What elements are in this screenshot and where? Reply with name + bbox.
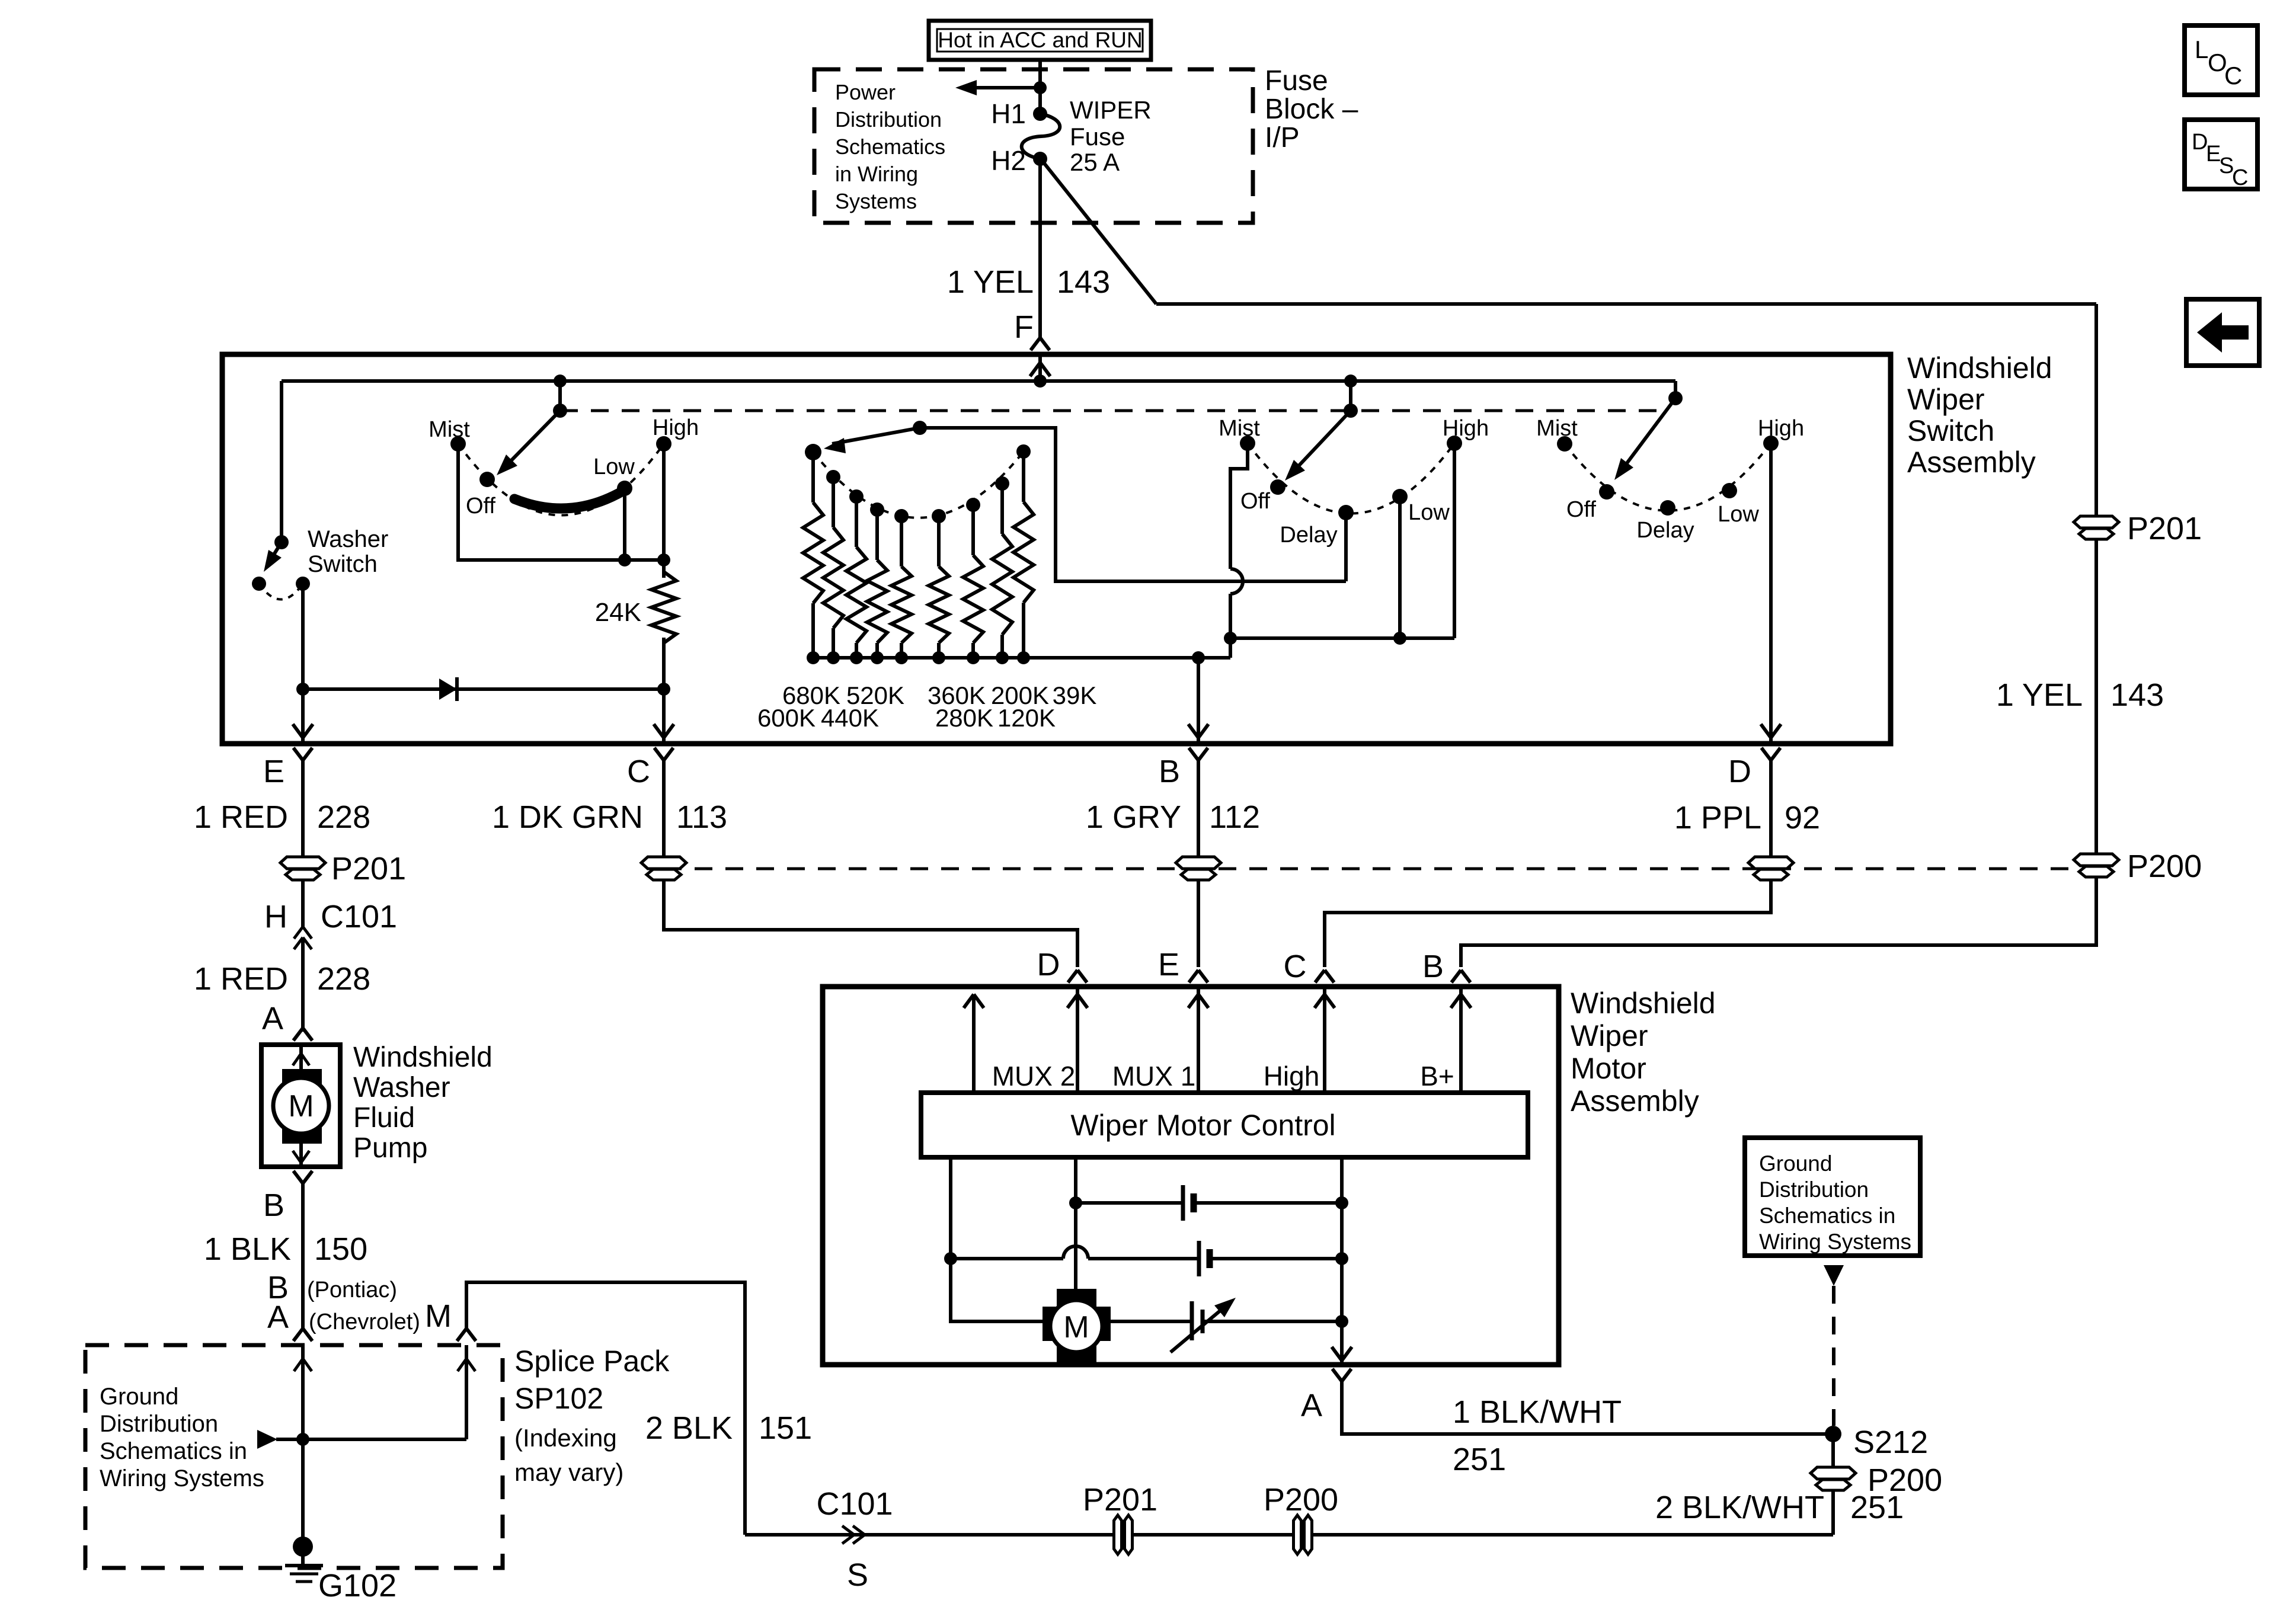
svg-text:Assembly: Assembly — [1907, 446, 2036, 479]
svg-text:228: 228 — [317, 961, 370, 997]
wire: pump B drop — [301, 1183, 305, 1331]
capacitor C1 (upper) — [1076, 1185, 1342, 1221]
svg-text:Wiring Systems: Wiring Systems — [1759, 1230, 1911, 1254]
svg-text:Distribution: Distribution — [835, 107, 942, 132]
dashed arc washer — [259, 584, 303, 600]
node: branch junction — [1034, 81, 1047, 94]
ground distribution dashed box — [85, 1345, 503, 1568]
svg-text:Systems: Systems — [835, 189, 917, 213]
motor M2 symbol — [1043, 1289, 1111, 1362]
terminal M (splice pack) — [457, 1329, 476, 1341]
connector P201 (bus) — [1083, 1482, 1157, 1554]
wire: ground bus — [745, 1533, 1833, 1537]
washer switch lever arrow — [264, 542, 282, 572]
svg-text:A: A — [267, 1299, 289, 1335]
resistor 24K — [595, 572, 676, 643]
wire: S2 Mist step-down — [1230, 443, 1248, 638]
wire: S212 to P200 — [1831, 1434, 1835, 1468]
label: Windshield Wiper Motor Assembly — [1571, 987, 1716, 1118]
svg-text:P201: P201 — [2127, 511, 2202, 546]
svg-text:Assembly: Assembly — [1571, 1084, 1699, 1118]
wire: washer riser — [280, 381, 283, 542]
wire: B to motor E — [1197, 880, 1200, 967]
label: 2 BLK 151 — [645, 1410, 812, 1446]
svg-text:Hot in ACC and RUN: Hot in ACC and RUN — [938, 28, 1142, 52]
contact washer right — [296, 577, 310, 591]
terminal E (switch) — [263, 748, 312, 789]
svg-text:MUX 2: MUX 2 — [992, 1061, 1076, 1092]
dashed arc S3 — [1565, 443, 1771, 511]
label: Washer Switch — [308, 526, 388, 577]
node: battery1 left — [1069, 1196, 1082, 1209]
label: 1 RED 228 — [194, 799, 370, 835]
contact S2 Low — [1392, 489, 1450, 525]
svg-text:Wiper: Wiper — [1571, 1019, 1648, 1052]
label: 1 YEL 143 (right) — [1996, 677, 2164, 713]
svg-text:Mist: Mist — [428, 417, 470, 442]
svg-text:1 BLK/WHT: 1 BLK/WHT — [1453, 1394, 1622, 1430]
wire: WMC left drop — [951, 1157, 1043, 1321]
terminal A (motor) — [1301, 1369, 1351, 1423]
svg-text:Windshield: Windshield — [1907, 351, 2052, 385]
svg-text:Motor: Motor — [1571, 1052, 1646, 1085]
svg-text:B: B — [263, 1188, 284, 1223]
terminal D (switch) — [1728, 748, 1780, 789]
svg-text:1 YEL: 1 YEL — [1996, 677, 2083, 713]
svg-text:Mist: Mist — [1536, 416, 1578, 441]
svg-text:600K: 600K — [757, 704, 816, 732]
wire: C101 to pump A — [301, 937, 305, 1032]
connector P201 (right) — [2074, 511, 2202, 546]
switch S2 lever arrow — [1285, 411, 1351, 481]
wire: ground crossover — [257, 1430, 466, 1449]
svg-text:(Pontiac): (Pontiac) — [307, 1278, 397, 1302]
svg-text:1 RED: 1 RED — [194, 799, 288, 835]
svg-text:A: A — [1301, 1388, 1322, 1423]
diode D1 — [303, 677, 664, 701]
connector P201 (C column) — [641, 857, 686, 880]
ground G102 — [285, 1537, 396, 1603]
pin H1 — [991, 98, 1047, 129]
wire: inner top bus — [282, 379, 1675, 383]
windshield wiper switch assembly box — [222, 354, 1891, 744]
wire: washer to diode rail — [301, 584, 305, 689]
node: switch2 pivot — [1344, 404, 1358, 418]
svg-text:P200: P200 — [1264, 1482, 1338, 1518]
connector P200 (D column) — [1748, 857, 1793, 880]
svg-text:P201: P201 — [331, 851, 406, 886]
svg-text:1 PPL: 1 PPL — [1674, 800, 1761, 836]
node: ground junction — [296, 1433, 309, 1446]
terminal E (motor) — [1158, 947, 1208, 982]
svg-text:280K: 280K — [935, 704, 993, 732]
note: Power Distribution Schematics in Wiring Systems — [835, 80, 945, 213]
label: Windshield Wiper Switch Assembly — [1907, 351, 2052, 479]
svg-text:113: 113 — [676, 799, 727, 835]
resistor 120K (ladder 8) — [992, 476, 1012, 664]
svg-text:B: B — [1422, 949, 1444, 984]
svg-text:Fuse: Fuse — [1265, 65, 1328, 97]
svg-text:C: C — [627, 754, 650, 789]
note: Ground Distribution Schematics in Wiring Systems (right) — [1759, 1151, 1911, 1254]
wire: ladder bus to mux — [1229, 638, 1232, 658]
svg-text:High: High — [1758, 416, 1804, 441]
node: diode rail right — [657, 683, 670, 696]
contact S1 Off — [466, 472, 495, 518]
dashed arc S2 — [1248, 443, 1454, 514]
svg-text:P200: P200 — [2127, 849, 2202, 884]
svg-text:Low: Low — [593, 454, 635, 479]
label: ladder values row2 — [757, 704, 1056, 732]
terminal D (motor) — [1037, 947, 1088, 982]
svg-text:M: M — [1063, 1310, 1089, 1345]
wire: C to motor D — [664, 880, 1077, 967]
svg-text:151: 151 — [759, 1410, 812, 1446]
contact S3 Low — [1718, 483, 1759, 527]
svg-text:M: M — [288, 1089, 314, 1124]
terminal C (switch) — [627, 748, 673, 789]
node: S2 mux junction — [1224, 632, 1237, 645]
svg-text:2 BLK/WHT: 2 BLK/WHT — [1655, 1490, 1824, 1525]
label: ladder values row1 — [782, 681, 1096, 709]
wire from Hot box to H1 — [1038, 60, 1042, 114]
svg-text:H2: H2 — [991, 145, 1026, 176]
label: 1 YEL 143 (top) — [947, 264, 1110, 300]
svg-text:25 A: 25 A — [1070, 148, 1120, 176]
label: 1 PPL 92 — [1674, 800, 1820, 836]
wire: S2 mux rail — [1230, 636, 1454, 640]
svg-text:Schematics in: Schematics in — [1759, 1204, 1895, 1228]
label: MUX 1 — [1112, 1061, 1196, 1092]
terminal A (pump) — [293, 1028, 312, 1041]
wire: P201 to C101 — [301, 880, 305, 927]
wire: M ground riser — [458, 1345, 475, 1439]
svg-text:C101: C101 — [816, 1486, 893, 1522]
node: battery2 left — [944, 1252, 957, 1265]
wire: S1 High column — [662, 444, 666, 578]
wire: M jumper — [466, 1282, 745, 1535]
label: A (Chevrolet) M — [267, 1298, 452, 1335]
contact washer left — [252, 577, 266, 591]
svg-text:Off: Off — [1566, 497, 1596, 522]
pin H2 — [991, 145, 1047, 176]
contact S2 Off — [1240, 479, 1285, 514]
node: washer pivot — [274, 535, 289, 549]
contact S3 Delay — [1636, 500, 1694, 543]
label: Splice Pack SP102 — [514, 1345, 670, 1486]
svg-text:Wiper Motor Control: Wiper Motor Control — [1070, 1109, 1335, 1142]
svg-text:Power: Power — [835, 80, 896, 104]
svg-text:Off: Off — [1240, 489, 1270, 514]
connector P200 (B column) — [1176, 857, 1221, 880]
svg-text:Block –: Block – — [1265, 94, 1358, 125]
label box: Hot in ACC and RUN — [929, 21, 1151, 60]
label: 1 GRY 112 — [1086, 799, 1260, 835]
wire: ground drop — [294, 1345, 312, 1547]
contact S3 Off — [1566, 484, 1614, 522]
svg-text:C: C — [2232, 165, 2248, 190]
svg-text:Wiring Systems: Wiring Systems — [100, 1465, 264, 1491]
svg-text:MUX 1: MUX 1 — [1112, 1061, 1196, 1092]
contact S1 Mist — [428, 417, 470, 452]
icon: DESC box — [2185, 120, 2257, 190]
contact S3 High — [1758, 416, 1804, 451]
label: High (motor) — [1264, 1061, 1320, 1092]
svg-text:Schematics: Schematics — [835, 135, 945, 159]
node: diode rail left — [296, 683, 309, 696]
svg-text:Delay: Delay — [1280, 523, 1337, 548]
resistor 280K (ladder 6) — [929, 509, 949, 664]
svg-text:I/P: I/P — [1265, 122, 1300, 153]
svg-text:Switch: Switch — [308, 551, 378, 577]
svg-text:Low: Low — [1408, 500, 1450, 525]
wire: WMC right drop — [1332, 1157, 1352, 1365]
resistor 600K (ladder 2) — [823, 470, 843, 664]
note: Ground Distribution Schematics in Wiring Systems (left) — [100, 1384, 264, 1491]
wire: H2 to F terminal — [1038, 159, 1042, 339]
wire: pump top lead — [293, 1045, 309, 1078]
wire: S2 Low drop — [1398, 497, 1402, 638]
node: switch2 pivot top — [1344, 375, 1357, 411]
svg-text:Washer: Washer — [353, 1072, 450, 1103]
wire: C drop — [662, 760, 666, 857]
svg-text:G102: G102 — [318, 1568, 396, 1603]
svg-text:228: 228 — [317, 799, 370, 835]
svg-text:Windshield: Windshield — [353, 1042, 493, 1073]
wire: power distribution branch arrow — [955, 80, 1040, 95]
resistor 680K (ladder 1) — [803, 444, 823, 664]
wire: WMC arrow B — [1451, 987, 1471, 1093]
wire: WMC arrow 0 — [964, 994, 984, 1093]
wire: pump bottom lead — [293, 1133, 309, 1167]
svg-text:F: F — [1014, 309, 1034, 345]
svg-text:B+: B+ — [1420, 1061, 1454, 1092]
wire: S1 Low contact drop — [623, 488, 626, 560]
resistor 39K (ladder 9) — [1013, 444, 1034, 664]
resistor 520K (ladder 3) — [846, 489, 866, 664]
svg-text:150: 150 — [314, 1231, 367, 1267]
wire: WMC mux1 drop — [1074, 1157, 1077, 1291]
off-page triangle — [1824, 1265, 1844, 1286]
label: 1 BLK 150 — [204, 1231, 367, 1267]
svg-text:Low: Low — [1718, 502, 1759, 527]
svg-text:1 DK GRN: 1 DK GRN — [492, 799, 643, 835]
svg-text:143: 143 — [2110, 677, 2164, 713]
label: Fuse Block - I/P — [1265, 65, 1358, 153]
wire: ladder bottom bus — [813, 656, 1230, 660]
svg-text:E: E — [263, 754, 284, 789]
wire: 24K to diode rail — [662, 638, 666, 689]
svg-text:E: E — [1158, 947, 1179, 982]
wire: 1 YEL 143 right drop — [2094, 304, 2098, 855]
node: C2 right — [1335, 1252, 1348, 1265]
wire: S2 delay feed riser — [1344, 513, 1348, 581]
svg-text:S: S — [847, 1557, 868, 1593]
node: S2 low junction — [1393, 632, 1406, 645]
label: A (pump) — [262, 1001, 283, 1036]
svg-text:Off: Off — [466, 494, 495, 518]
inline connector C101 (left) — [264, 899, 397, 949]
svg-text:Ground: Ground — [1759, 1151, 1832, 1176]
pump M1 motor symbol — [273, 1069, 329, 1144]
wire: S1 Mist to low rail — [458, 444, 664, 560]
wire: P200 to ground bus — [1831, 1490, 1835, 1535]
wire: H2 diagonal to right bus — [1043, 161, 2096, 304]
dashed wire to S212 — [1832, 1286, 1835, 1426]
svg-text:H1: H1 — [991, 98, 1026, 129]
svg-text:SP102: SP102 — [514, 1382, 603, 1415]
label: Windshield Washer Fluid Pump — [353, 1042, 493, 1164]
wire: ladder pivot to delay feed — [920, 428, 1346, 581]
wire: B drop — [1197, 760, 1200, 857]
svg-text:Windshield: Windshield — [1571, 987, 1716, 1020]
switch S3 lever arrow — [1614, 398, 1675, 480]
node: switch3 pivot — [1668, 391, 1683, 405]
terminal A (splice pack) — [293, 1329, 312, 1341]
label: MUX 2 — [992, 1061, 1076, 1092]
label: 2 BLK/WHT 251 — [1655, 1490, 1904, 1525]
fuse F1 WIPER 25A — [1022, 96, 1152, 176]
svg-text:C: C — [1284, 949, 1307, 984]
label: B (Pontiac) — [267, 1270, 397, 1305]
svg-text:2 BLK: 2 BLK — [645, 1410, 733, 1446]
contact S2 Mist — [1219, 416, 1260, 451]
contact S1 High — [653, 415, 699, 452]
node: B tap — [1192, 651, 1205, 664]
ground distribution box (right) — [1745, 1138, 1920, 1256]
svg-text:251: 251 — [1453, 1442, 1506, 1477]
wire: D drop — [1769, 760, 1773, 857]
svg-text:251: 251 — [1850, 1490, 1904, 1525]
label: B+ — [1420, 1061, 1454, 1092]
svg-text:in Wiring: in Wiring — [835, 162, 918, 186]
contact S2 High — [1443, 416, 1489, 451]
wire: F entry stub — [1030, 354, 1050, 381]
svg-text:Fuse: Fuse — [1070, 123, 1125, 151]
svg-text:(Indexing: (Indexing — [514, 1424, 617, 1452]
splice S212 — [1825, 1425, 1928, 1460]
resistor 200K (ladder 7) — [963, 498, 983, 664]
wire: S2 High drop — [1453, 443, 1456, 638]
contact S3 Mist — [1536, 416, 1578, 452]
fuse block dashed box — [814, 69, 1253, 223]
dashed arc ladder — [813, 452, 1024, 518]
icon: back arrow box — [2186, 299, 2259, 366]
wire: E drop — [301, 760, 305, 857]
svg-text:Pump: Pump — [353, 1132, 427, 1164]
svg-text:D: D — [1037, 947, 1060, 982]
wire: WMC arrow E — [1188, 987, 1208, 1093]
wire: WMC arrow C — [1315, 987, 1335, 1093]
svg-text:120K: 120K — [997, 704, 1056, 732]
svg-text:440K: 440K — [821, 704, 879, 732]
wire: switch3 pivot drop — [1674, 381, 1677, 398]
windshield washer fluid pump box — [261, 1045, 340, 1167]
windshield wiper motor assembly box — [823, 987, 1559, 1365]
svg-text:may vary): may vary) — [514, 1458, 623, 1486]
svg-text:(Chevrolet): (Chevrolet) — [309, 1310, 420, 1334]
connector P200 (S212) — [1811, 1462, 1942, 1498]
svg-text:1 RED: 1 RED — [194, 961, 288, 997]
svg-text:Distribution: Distribution — [100, 1411, 218, 1437]
node: motor rail right — [1335, 1315, 1348, 1328]
svg-text:Ground: Ground — [100, 1384, 178, 1410]
svg-text:H: H — [264, 899, 287, 934]
node: switch1 pivot top — [554, 375, 567, 411]
inline connector C101 (bus) — [816, 1486, 893, 1593]
svg-text:Switch: Switch — [1907, 414, 1994, 447]
switch S1 lever arrow — [497, 411, 560, 475]
svg-text:C: C — [2224, 62, 2242, 89]
dashed control line — [560, 409, 1662, 412]
ladder selector arrow — [824, 428, 920, 453]
node: S1 low-rail junctions — [618, 553, 670, 566]
terminal B (pump) — [263, 1171, 312, 1223]
terminal F — [1014, 309, 1050, 350]
connector P201 (E column) — [280, 851, 406, 886]
svg-text:1 BLK: 1 BLK — [204, 1231, 291, 1267]
wire: right bus to motor B — [1461, 876, 2096, 967]
wiper motor control box — [921, 1093, 1528, 1157]
dashed connector row — [664, 868, 2074, 870]
svg-text:Washer: Washer — [308, 526, 388, 552]
variable resistor (wiper speed) — [1111, 1298, 1342, 1352]
svg-text:A: A — [262, 1001, 283, 1036]
svg-text:1 YEL: 1 YEL — [947, 264, 1034, 300]
terminal B (switch) — [1159, 748, 1208, 789]
svg-text:143: 143 — [1057, 264, 1110, 300]
label: 1 DK GRN 113 — [492, 799, 727, 835]
svg-text:Distribution: Distribution — [1759, 1177, 1869, 1202]
svg-text:S212: S212 — [1853, 1425, 1928, 1460]
svg-text:Splice Pack: Splice Pack — [514, 1345, 670, 1378]
svg-text:92: 92 — [1785, 800, 1820, 836]
svg-text:Fluid: Fluid — [353, 1102, 415, 1134]
svg-text:39K: 39K — [1053, 681, 1097, 709]
svg-text:B: B — [1159, 754, 1180, 789]
svg-text:C101: C101 — [321, 899, 397, 934]
svg-text:D: D — [1728, 754, 1751, 789]
svg-text:Schematics in: Schematics in — [100, 1438, 247, 1464]
svg-text:High: High — [653, 415, 699, 440]
label: 1 BLK/WHT 251 — [1453, 1394, 1622, 1477]
wire: E exit — [293, 689, 313, 741]
wire: B exit — [1188, 658, 1208, 741]
resistor 440K (ladder 4) — [867, 502, 887, 664]
svg-text:Wiper: Wiper — [1907, 383, 1985, 416]
svg-text:High: High — [1443, 416, 1489, 441]
node: C1 right — [1335, 1196, 1348, 1209]
contact S2 Delay — [1280, 505, 1354, 548]
svg-text:L: L — [2195, 36, 2208, 63]
node: switch1 pivot — [553, 404, 567, 418]
svg-text:Mist: Mist — [1219, 416, 1260, 441]
connector P200 (bus) — [1264, 1482, 1338, 1554]
capacitor C2 (lower) — [951, 1241, 1342, 1276]
terminal C (motor) — [1284, 949, 1335, 984]
svg-text:24K: 24K — [595, 598, 641, 627]
svg-text:WIPER: WIPER — [1070, 96, 1152, 124]
connector P200 (right) — [2074, 849, 2202, 884]
svg-text:High: High — [1264, 1061, 1320, 1092]
node: ladder pivot — [913, 421, 927, 435]
contact S1 Low (wiper blade arc) — [514, 454, 635, 508]
node: F junction — [1034, 375, 1047, 388]
wire: D to motor C — [1325, 880, 1771, 967]
wire: S3 High to D exit — [1761, 443, 1781, 741]
dashed arc S1 — [458, 444, 664, 516]
terminal B (motor) — [1422, 949, 1470, 984]
